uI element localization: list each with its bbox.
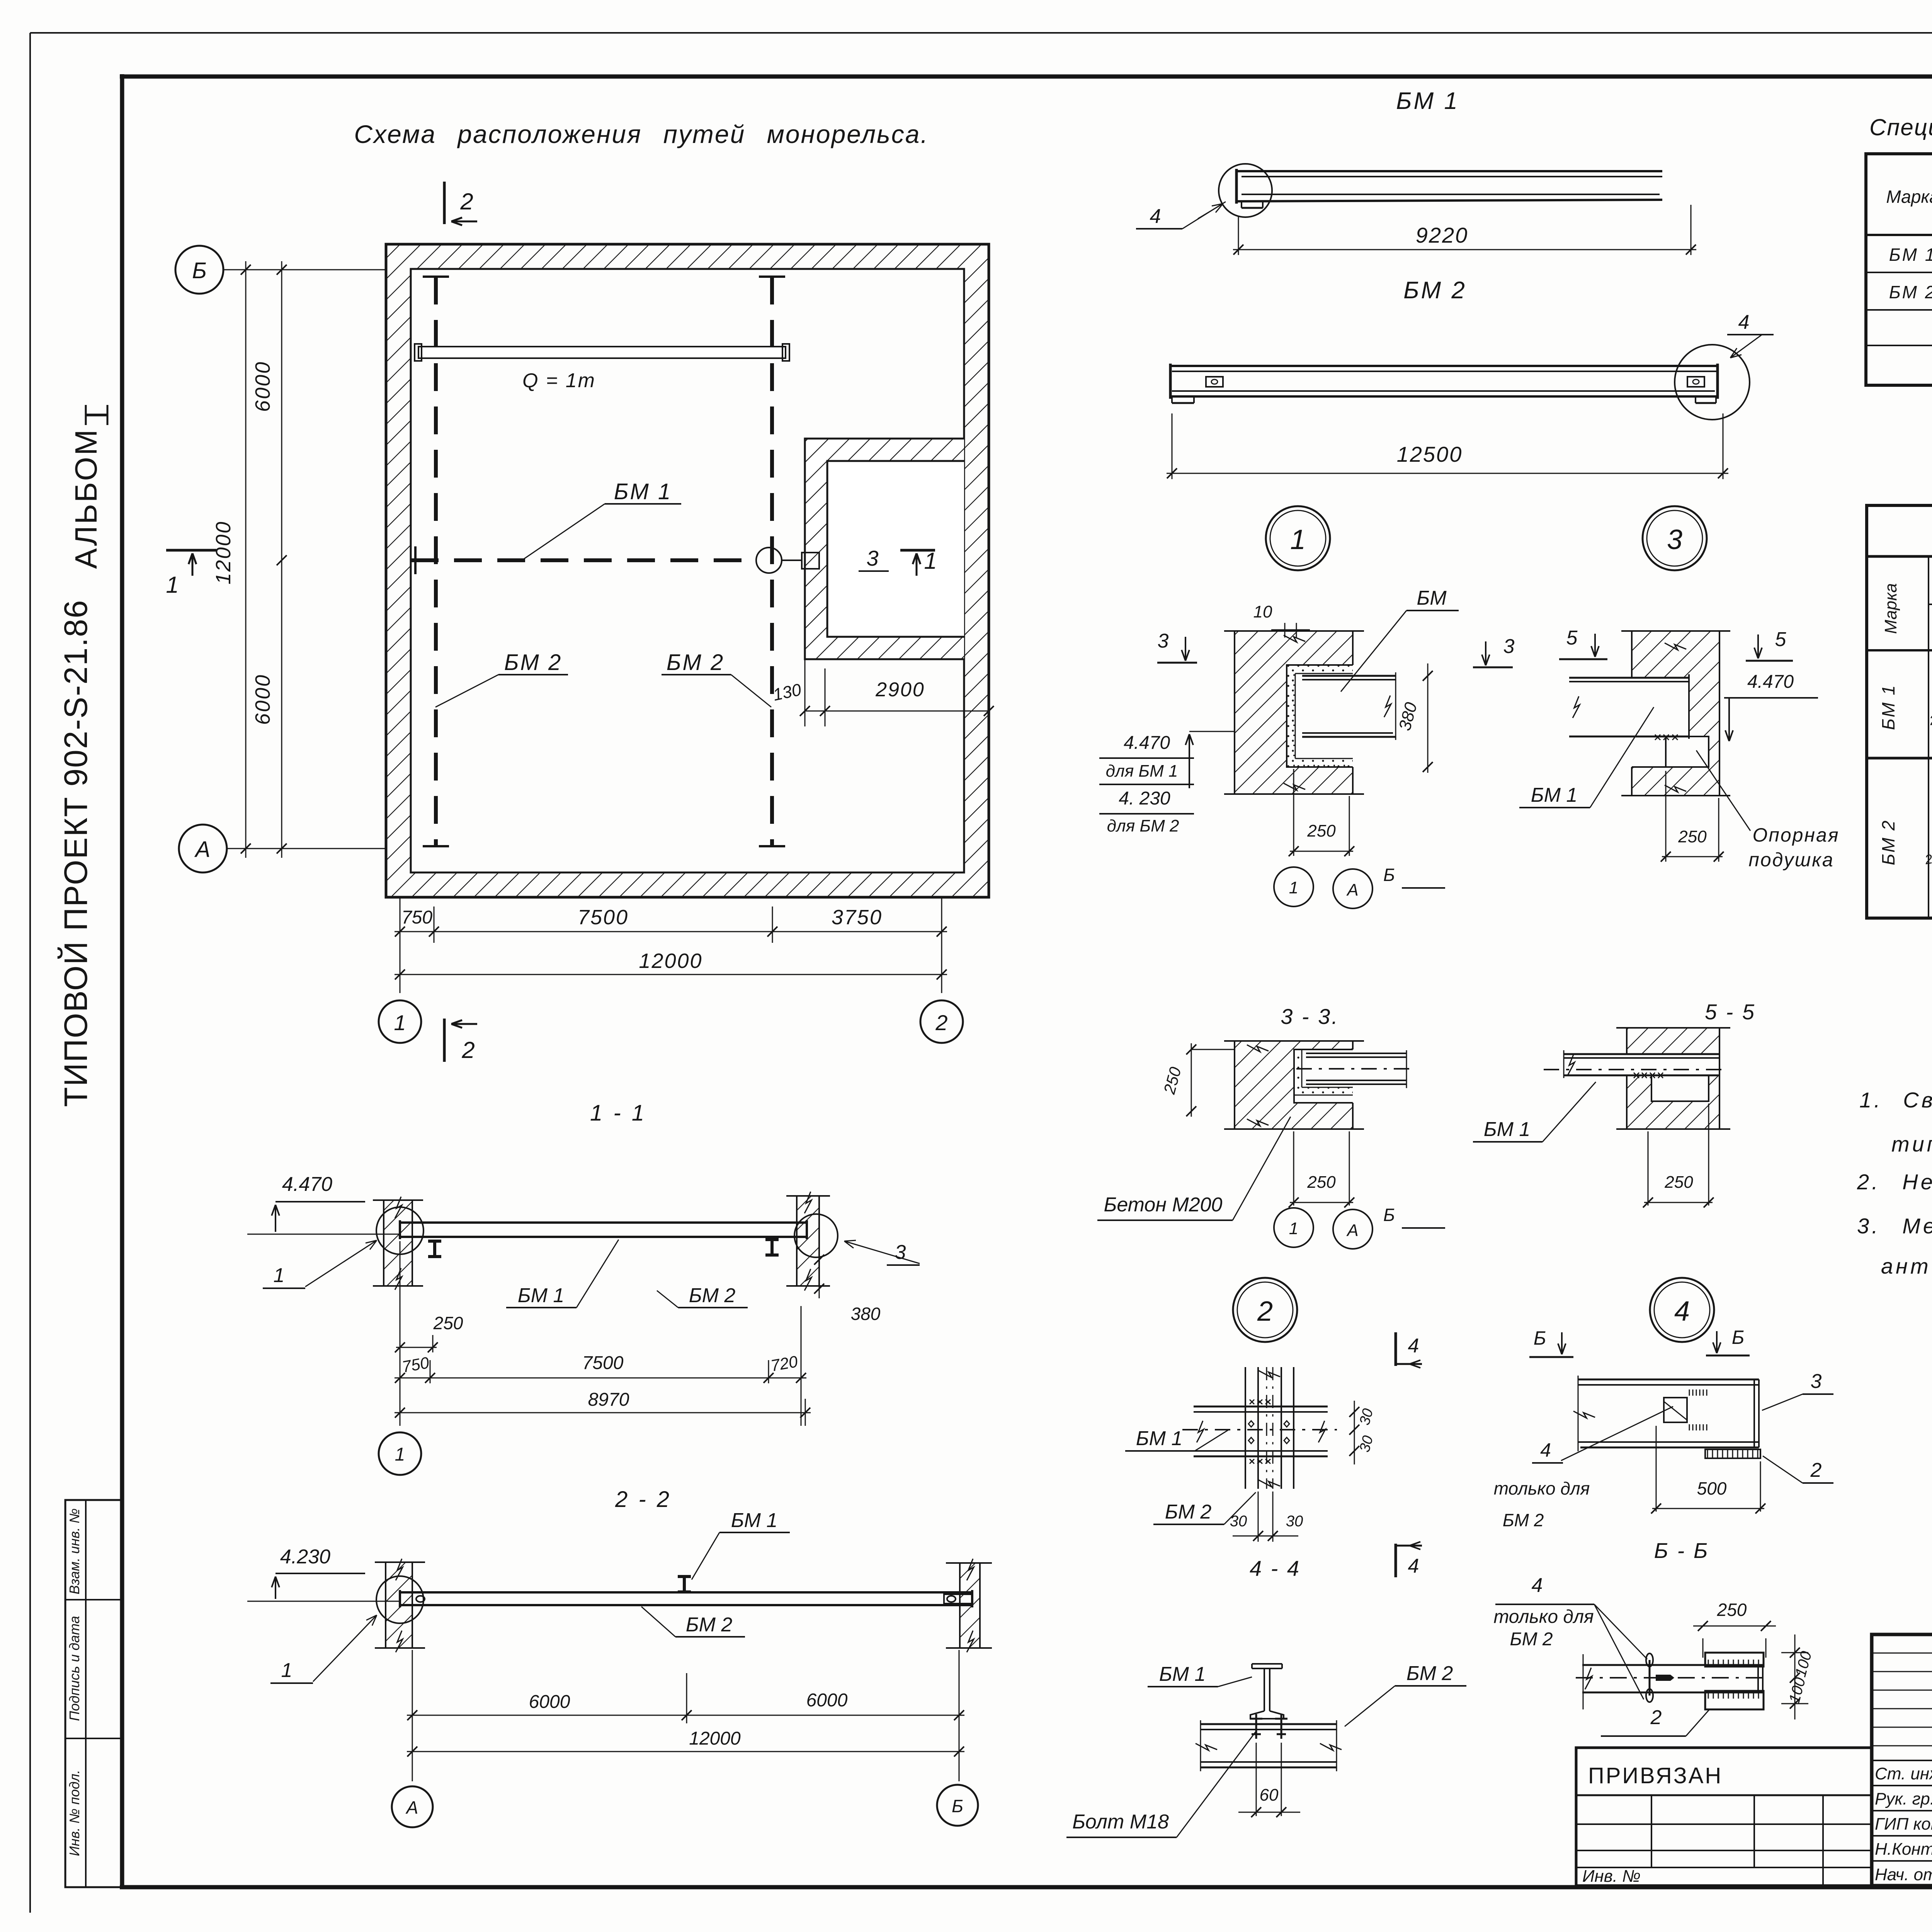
svg-text:4: 4	[1150, 205, 1161, 228]
svg-text:только для: только для	[1493, 1607, 1594, 1627]
svg-text:30: 30	[1357, 1407, 1377, 1427]
svg-text:БМ 1: БМ 1	[1531, 784, 1578, 806]
svg-text:1: 1	[1289, 1219, 1298, 1238]
svg-text:1: 1	[394, 1010, 406, 1035]
svg-text:1: 1	[274, 1264, 285, 1287]
svg-text:Марка: Марка	[1881, 583, 1900, 634]
svg-text:3: 3	[1158, 630, 1169, 652]
svg-text:БМ 2: БМ 2	[1878, 820, 1898, 866]
svg-text:Б: Б	[1534, 1327, 1546, 1349]
svg-text:БМ 2: БМ 2	[1165, 1501, 1212, 1523]
svg-text:250: 250	[1160, 1065, 1185, 1096]
svg-text:Q = 1т: Q = 1т	[522, 369, 596, 392]
svg-text:380: 380	[851, 1304, 881, 1324]
svg-text:БМ 2: БМ 2	[1406, 1662, 1453, 1685]
svg-text:Инв. № подл.: Инв. № подл.	[66, 1770, 82, 1856]
svg-text:500: 500	[1697, 1478, 1727, 1498]
svg-text:Взам. инв. №: Взам. инв. №	[66, 1509, 82, 1595]
svg-text:1: 1	[1290, 524, 1306, 555]
svg-text:100: 100	[1792, 1650, 1815, 1679]
svg-text:Бетон М200: Бетон М200	[1104, 1194, 1223, 1216]
svg-text:А: А	[405, 1798, 418, 1818]
svg-text:750: 750	[401, 907, 432, 928]
svg-text:2: 2	[935, 1010, 947, 1035]
svg-text:3 - 3.: 3 - 3.	[1281, 1004, 1339, 1029]
svg-text:БМ: БМ	[1417, 587, 1447, 609]
svg-text:антикоррозийным битумным: антикоррозийным битумным лаком за 2 раза…	[1881, 1254, 1932, 1278]
svg-text:1: 1	[1289, 878, 1298, 897]
svg-text:1: 1	[166, 572, 179, 598]
svg-text:12000: 12000	[212, 520, 235, 584]
svg-text:12000: 12000	[689, 1728, 741, 1749]
svg-text:2: 2	[1650, 1706, 1662, 1729]
svg-text:4.470: 4.470	[1747, 672, 1794, 692]
svg-text:БМ 2: БМ 2	[667, 650, 724, 675]
svg-text:Подпись и дата: Подпись и дата	[66, 1616, 82, 1721]
svg-text:9220: 9220	[1416, 223, 1469, 247]
svg-text:ГИП кон.: ГИП кон.	[1875, 1815, 1932, 1833]
svg-text:Б: Б	[952, 1796, 963, 1816]
svg-text:Б: Б	[1383, 865, 1395, 885]
svg-text:только для: только для	[1494, 1478, 1590, 1498]
svg-text:4.470: 4.470	[282, 1173, 332, 1196]
svg-text:А: А	[1346, 881, 1358, 900]
svg-text:ПРИВЯЗАН: ПРИВЯЗАН	[1588, 1763, 1723, 1788]
svg-text:4 - 4: 4 - 4	[1250, 1556, 1301, 1580]
svg-text:БМ 2: БМ 2	[1510, 1629, 1553, 1650]
svg-text:380: 380	[1395, 700, 1421, 733]
svg-text:250: 250	[1664, 1173, 1693, 1192]
svg-text:12500: 12500	[1397, 442, 1463, 466]
svg-text:6000: 6000	[251, 674, 274, 725]
svg-text:БМ 1: БМ 1	[1159, 1663, 1206, 1685]
svg-text:2: 2	[1810, 1459, 1822, 1481]
svg-text:Болт М18: Болт М18	[1072, 1811, 1169, 1833]
svg-text:Нач. отд.: Нач. отд.	[1875, 1865, 1932, 1884]
svg-text:БМ 1: БМ 1	[1396, 88, 1459, 114]
svg-text:5 - 5: 5 - 5	[1705, 1000, 1756, 1024]
svg-text:типа Э42 ГОСТ 9467-75.: типа Э42 ГОСТ 9467-75.	[1891, 1132, 1932, 1156]
svg-text:6000: 6000	[251, 361, 274, 412]
svg-text:2 - 2: 2 - 2	[615, 1487, 672, 1512]
svg-text:2: 2	[1257, 1296, 1273, 1327]
svg-text:1: 1	[281, 1659, 293, 1682]
svg-text:БМ 1: БМ 1	[1889, 245, 1932, 265]
svg-text:подушка: подушка	[1748, 849, 1834, 871]
svg-text:30: 30	[1286, 1513, 1303, 1530]
svg-text:Ст. инж.: Ст. инж.	[1875, 1764, 1932, 1783]
svg-text:100: 100	[1786, 1676, 1809, 1705]
svg-text:6000: 6000	[529, 1692, 570, 1712]
svg-text:ТИПОВОЙ ПРОЕКТ 902-S-21.86: ТИПОВОЙ ПРОЕКТ 902-S-21.86	[58, 599, 94, 1107]
svg-text:250: 250	[433, 1313, 463, 1333]
svg-text:БМ 1: БМ 1	[1136, 1427, 1183, 1450]
svg-text:7500: 7500	[578, 906, 629, 929]
svg-text:Б - Б: Б - Б	[1654, 1538, 1709, 1563]
svg-text:Б: Б	[1383, 1205, 1395, 1225]
svg-text:4: 4	[1408, 1555, 1419, 1577]
svg-text:250: 250	[1678, 827, 1707, 846]
svg-text:2900: 2900	[875, 679, 925, 701]
svg-text:4. 230: 4. 230	[1119, 788, 1170, 809]
svg-text:4: 4	[1540, 1439, 1551, 1461]
svg-text:Схема расположения путей мо: Схема расположения путей монорельса.	[354, 120, 929, 148]
svg-text:1: 1	[924, 548, 937, 574]
svg-text:5: 5	[1775, 628, 1787, 651]
svg-text:БМ 2: БМ 2	[504, 650, 562, 675]
svg-text:3: 3	[1667, 524, 1682, 555]
svg-text:750: 750	[401, 1353, 431, 1376]
svg-text:Инв. №: Инв. №	[1582, 1867, 1641, 1886]
svg-text:АЛЬБОМ: АЛЬБОМ	[69, 428, 103, 569]
svg-text:250: 250	[1717, 1600, 1747, 1620]
svg-text:Б: Б	[1732, 1327, 1745, 1348]
svg-text:3: 3	[866, 546, 878, 570]
svg-text:БМ 1: БМ 1	[731, 1509, 778, 1532]
svg-text:БМ 2: БМ 2	[689, 1284, 736, 1307]
svg-text:Опорная: Опорная	[1752, 824, 1839, 846]
svg-text:БМ 1: БМ 1	[614, 479, 672, 504]
svg-text:1: 1	[395, 1444, 405, 1465]
svg-text:БМ 2: БМ 2	[1503, 1510, 1544, 1530]
svg-text:2: 2	[461, 1037, 474, 1063]
svg-text:3: 3	[1811, 1370, 1822, 1393]
svg-text:4: 4	[1738, 311, 1750, 333]
svg-text:250: 250	[1923, 849, 1932, 867]
svg-text:10: 10	[1253, 602, 1272, 621]
svg-text:130: 130	[771, 680, 803, 704]
svg-text:А: А	[1346, 1221, 1358, 1240]
svg-text:2: 2	[460, 189, 473, 214]
svg-text:БМ 1: БМ 1	[1878, 684, 1898, 730]
svg-text:БМ 1: БМ 1	[1484, 1118, 1531, 1141]
svg-text:250: 250	[1307, 1173, 1336, 1192]
svg-text:БМ 2: БМ 2	[686, 1614, 733, 1636]
svg-text:7500: 7500	[582, 1353, 624, 1373]
svg-text:30: 30	[1230, 1513, 1247, 1530]
svg-text:2. Неоговоренные сварные ш: 2. Неоговоренные сварные швы h = 5мм	[1857, 1170, 1932, 1194]
svg-text:БМ 2: БМ 2	[1889, 282, 1932, 302]
svg-text:3. Металлические конструкци: 3. Металлические конструкции окрасить	[1857, 1214, 1932, 1238]
svg-text:5: 5	[1566, 627, 1578, 649]
svg-text:6000: 6000	[806, 1690, 848, 1711]
svg-text:4: 4	[1532, 1574, 1543, 1597]
svg-text:для БМ 2: для БМ 2	[1107, 816, 1179, 835]
svg-text:4: 4	[1674, 1296, 1690, 1327]
svg-text:Б: Б	[192, 258, 207, 283]
svg-text:4.470: 4.470	[1124, 733, 1170, 753]
svg-text:8970: 8970	[588, 1389, 629, 1410]
svg-text:для БМ 1: для БМ 1	[1106, 762, 1178, 781]
svg-text:Спецификация к схеме расп: Спецификация к схеме расположения путей …	[1869, 114, 1932, 140]
svg-text:4.230: 4.230	[280, 1546, 330, 1568]
svg-text:1 - 1: 1 - 1	[590, 1100, 646, 1126]
svg-text:БМ 2: БМ 2	[1403, 277, 1467, 304]
svg-text:А: А	[194, 837, 211, 862]
svg-text:3: 3	[1503, 635, 1515, 658]
svg-text:720: 720	[769, 1352, 799, 1375]
svg-text:Н.Контр.: Н.Контр.	[1875, 1840, 1932, 1859]
svg-text:60: 60	[1260, 1786, 1279, 1804]
svg-text:4: 4	[1408, 1335, 1419, 1357]
svg-text:3750: 3750	[832, 906, 883, 929]
svg-text:Рук. гр.: Рук. гр.	[1875, 1789, 1932, 1808]
svg-text:3: 3	[895, 1241, 906, 1264]
svg-text:250: 250	[1307, 821, 1336, 840]
svg-text:БМ 1: БМ 1	[518, 1284, 565, 1307]
svg-text:30: 30	[1357, 1434, 1377, 1454]
svg-text:12000: 12000	[639, 949, 702, 973]
svg-text:1. Сварку производить эл: 1. Сварку производить электродами	[1859, 1088, 1932, 1112]
svg-text:Марка: Марка	[1886, 187, 1932, 207]
